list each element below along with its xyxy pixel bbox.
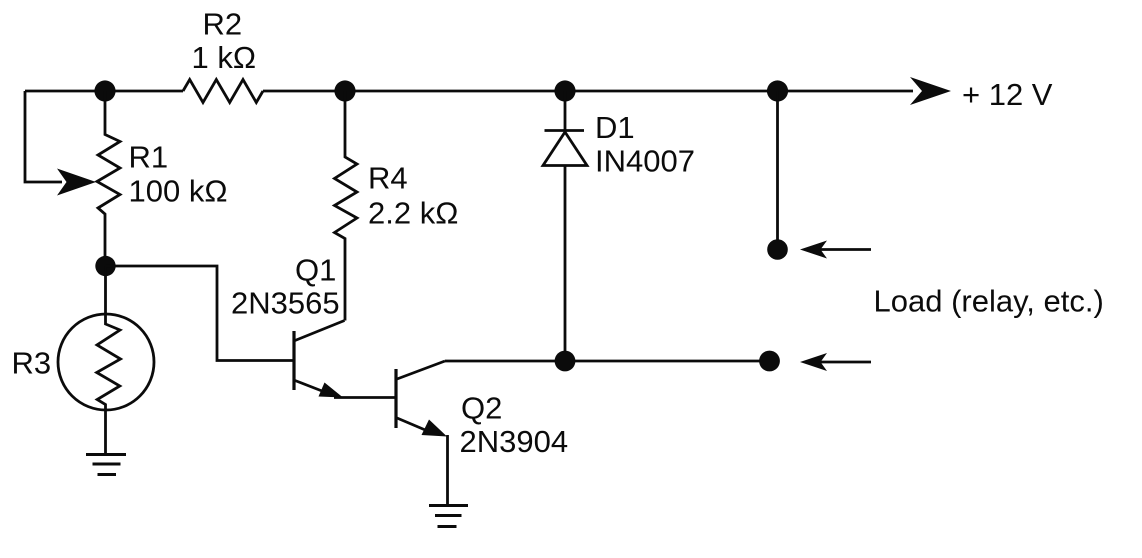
- svg-text:100 kΩ: 100 kΩ: [129, 174, 228, 209]
- resistor R1 (potentiometer): [97, 91, 120, 266]
- wire Q2 emitter to ground: [446, 435, 449, 504]
- svg-text:2.2 kΩ: 2.2 kΩ: [368, 196, 458, 231]
- node lower load terminal: [759, 351, 780, 372]
- node rail-R4 junction: [334, 80, 355, 101]
- node rail-load junction: [767, 80, 788, 101]
- D1 triangle: [543, 132, 587, 166]
- svg-text:2N3904: 2N3904: [460, 424, 569, 459]
- wire pot wiper feedback: left vertical and horizontal: [25, 91, 62, 182]
- Q2 collector diagonal: [397, 361, 445, 379]
- resistor R3 zigzag element: [97, 266, 121, 453]
- ground under Q2: [429, 506, 468, 527]
- wire Q1 emitter to Q2 base: [334, 396, 395, 399]
- svg-text:R3: R3: [12, 346, 52, 381]
- node rail-D1 junction: [554, 80, 575, 101]
- svg-text:2N3565: 2N3565: [231, 286, 340, 321]
- svg-text:IN4007: IN4007: [595, 144, 695, 179]
- resistor R2: [183, 80, 263, 103]
- arrow R1 wiper arrowhead: [57, 169, 96, 196]
- wire node-B to Q1 base: [106, 266, 294, 361]
- Q1 emitter arrowhead: [319, 383, 344, 398]
- diode D1: [543, 91, 587, 361]
- Q2 emitter arrowhead: [422, 420, 448, 437]
- Q1 base bar: [292, 331, 295, 390]
- svg-text:R2: R2: [203, 7, 243, 42]
- transistor Q2: [396, 361, 447, 437]
- ground under R3: [86, 455, 126, 475]
- svg-text:+ 12 V: + 12 V: [962, 77, 1053, 112]
- svg-text:R4: R4: [368, 161, 408, 196]
- Q2 base bar: [394, 369, 397, 428]
- svg-text:D1: D1: [595, 110, 635, 145]
- svg-text:Q2: Q2: [461, 391, 502, 426]
- wire Q2 collector to load: [445, 360, 769, 363]
- wire top rail right segment: [263, 90, 913, 93]
- wire rail to upper load terminal: [776, 91, 779, 250]
- transistor Q1: [294, 321, 345, 398]
- D1 anode wire from rail: [564, 91, 567, 131]
- svg-text:1 kΩ: 1 kΩ: [192, 40, 257, 75]
- svg-text:R1: R1: [129, 140, 169, 175]
- resistor R4: [335, 91, 358, 321]
- node upper load terminal: [767, 239, 788, 260]
- node R1-R3-Q1base junction: [95, 256, 115, 276]
- resistor R3 (photocell) circle: [58, 314, 154, 410]
- Q1 collector diagonal: [295, 321, 345, 341]
- svg-text:Q1: Q1: [295, 253, 336, 288]
- arrow to upper load terminal: [820, 248, 871, 251]
- wire top rail left segment: [25, 90, 183, 93]
- node rail-R1 junction: [94, 80, 115, 101]
- node D1-collector junction: [555, 351, 576, 372]
- D1 lower wire: [564, 166, 567, 362]
- arrow +12V supply arrowhead: [910, 77, 951, 105]
- arrow to lower load terminal: [820, 361, 871, 364]
- D1 cathode bar: [545, 129, 585, 132]
- svg-text:Load (relay, etc.): Load (relay, etc.): [874, 284, 1104, 319]
- Q2 emitter diagonal: [397, 418, 430, 432]
- Q1 emitter diagonal: [295, 381, 331, 395]
